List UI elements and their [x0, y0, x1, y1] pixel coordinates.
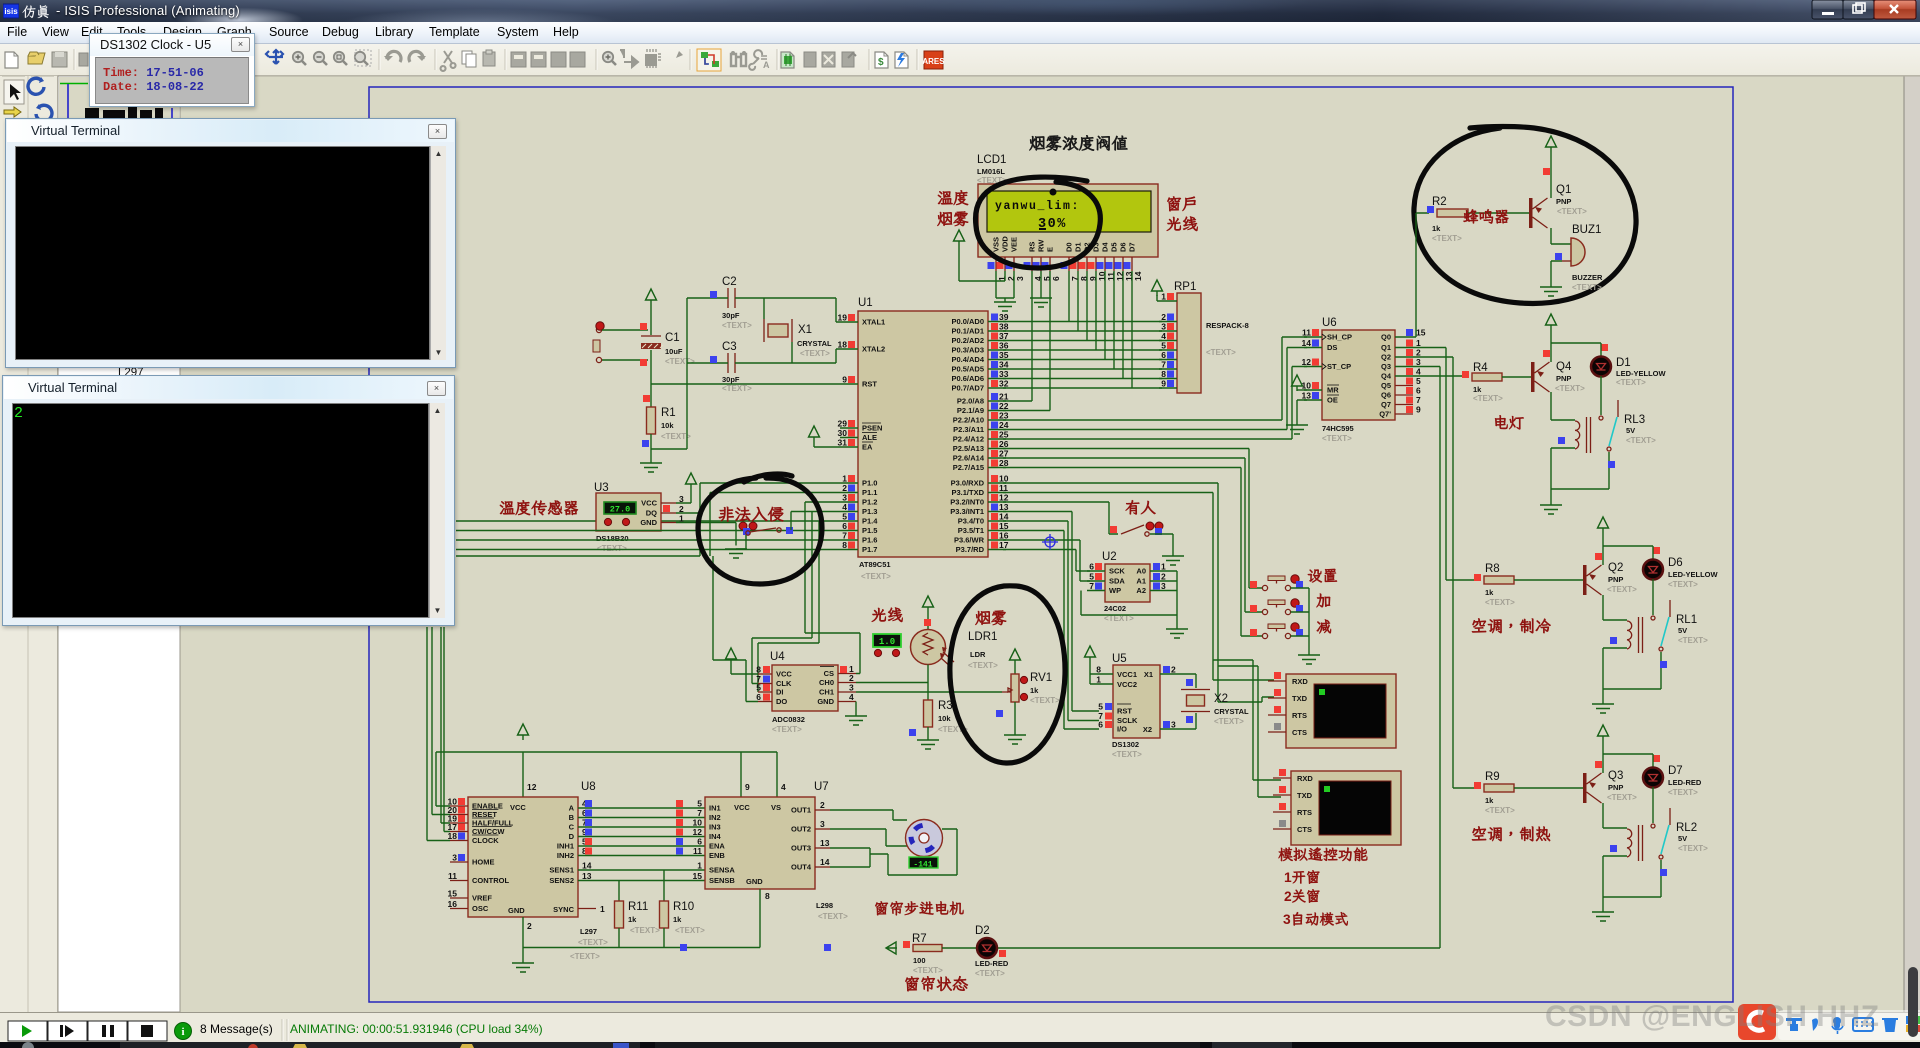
- transistor Q3 PNP: [1583, 773, 1587, 803]
- wire buttons ground rail: [1308, 588, 1310, 655]
- svg-text:<TEXT>: <TEXT>: [722, 321, 752, 330]
- svg-text:XTAL2: XTAL2: [862, 345, 885, 354]
- svg-text:C: C: [569, 823, 575, 832]
- U8 pin 17 CW/CCW: [450, 831, 468, 833]
- U1 pin 31 EA: [840, 446, 858, 448]
- svg-text:ENB: ENB: [709, 851, 725, 860]
- wire C3 left: [687, 362, 728, 364]
- svg-text:P1.3: P1.3: [862, 507, 877, 516]
- svg-text:4: 4: [1161, 331, 1166, 341]
- power arrow Q2: [1598, 517, 1609, 533]
- resistor R7 100: [913, 945, 942, 952]
- svg-text:9: 9: [745, 782, 750, 792]
- svg-text:<TEXT>: <TEXT>: [597, 544, 627, 553]
- svg-text:PNP: PNP: [1556, 374, 1571, 383]
- svg-text:X2: X2: [1214, 693, 1228, 705]
- wire emitter rail to D6: [1603, 545, 1653, 547]
- svg-text:1k: 1k: [1030, 686, 1039, 695]
- svg-text:XTAL1: XTAL1: [862, 318, 885, 327]
- relay RL3 coil: [1575, 421, 1580, 449]
- U4 pin 6 DO: [758, 701, 772, 703]
- svg-text:27.0: 27.0: [610, 505, 630, 515]
- svg-text:2: 2: [820, 800, 825, 810]
- wire P1.3 bracket to U4 CLK: [752, 512, 812, 684]
- svg-text:ALE: ALE: [862, 433, 877, 442]
- svg-text:3: 3: [1161, 322, 1166, 332]
- terminal 2 pin CTS: [1273, 828, 1291, 830]
- LCD1 pin 12 D5: [1113, 257, 1115, 271]
- wire P2.2 to U6 SH_CP: [1003, 337, 1307, 420]
- svg-text:<TEXT>: <TEXT>: [800, 349, 830, 358]
- svg-text:U7: U7: [814, 781, 829, 793]
- ground (buzzer): [1540, 287, 1562, 296]
- U6 pin 11 SH_CP: [1304, 336, 1322, 338]
- svg-text:<TEXT>: <TEXT>: [1557, 207, 1587, 216]
- svg-text:U8: U8: [581, 781, 596, 793]
- push button SET: [1250, 581, 1257, 588]
- wire C2 left: [687, 297, 728, 299]
- svg-text:D6: D6: [1668, 557, 1683, 569]
- svg-text:P2.5/A13: P2.5/A13: [953, 444, 984, 453]
- U8 pin 16 OSC: [450, 908, 468, 910]
- wire P3.3 to U5 RST: [1003, 512, 1099, 712]
- resistor R3 10k: [924, 700, 933, 727]
- U5 pin 5 RST: [1105, 703, 1112, 710]
- svg-text:P3.4/T0: P3.4/T0: [958, 517, 984, 526]
- transistor Q4 PNP: [1531, 362, 1535, 392]
- ground (U6 OE): [1286, 425, 1308, 434]
- wire P3.5 to U5 I/O: [1003, 531, 1099, 730]
- svg-text:D6: D6: [1119, 242, 1128, 252]
- U1 pin 2 P1.1: [840, 492, 858, 494]
- svg-text:<TEXT>: <TEXT>: [1616, 378, 1646, 387]
- svg-text:6: 6: [842, 521, 847, 531]
- power arrow U4 VCC: [726, 648, 737, 664]
- svg-text:15: 15: [693, 871, 703, 881]
- svg-text:DS: DS: [1327, 343, 1337, 352]
- U4 pin 7 CLK: [758, 683, 772, 685]
- svg-text:PSEN: PSEN: [862, 424, 882, 433]
- svg-text:1k: 1k: [1485, 796, 1494, 805]
- ground (relay RL2): [1602, 897, 1604, 912]
- reset button: [596, 327, 601, 332]
- svg-text:DS1302: DS1302: [1112, 740, 1139, 749]
- svg-text:C3: C3: [722, 341, 737, 353]
- svg-text:P0.5/AD5: P0.5/AD5: [951, 365, 984, 374]
- svg-text:2: 2: [1284, 889, 1292, 904]
- svg-text:RST: RST: [1117, 707, 1132, 716]
- power arrow Q1 emitter: [1546, 136, 1557, 152]
- svg-text:29: 29: [838, 419, 848, 429]
- svg-text:14: 14: [820, 857, 830, 867]
- svg-text:<TEXT>: <TEXT>: [578, 938, 608, 947]
- svg-text:30pF: 30pF: [722, 311, 740, 320]
- svg-text:P2.0/A8: P2.0/A8: [957, 397, 984, 406]
- ground (reset): [640, 463, 662, 472]
- U5 pin 3 X2: [1160, 728, 1178, 730]
- U4 pin 5 DI: [758, 691, 772, 693]
- svg-text:VCC2: VCC2: [1117, 680, 1137, 689]
- svg-text:12: 12: [693, 827, 703, 837]
- RP1 pin 6: [1159, 359, 1177, 361]
- svg-text:5: 5: [1098, 702, 1103, 712]
- svg-text:21: 21: [999, 392, 1009, 402]
- wire U8 to U7 row 1: [578, 807, 705, 809]
- svg-text:Q0: Q0: [1381, 333, 1391, 342]
- svg-text:OE: OE: [1327, 396, 1338, 405]
- svg-text:3: 3: [1283, 912, 1291, 927]
- svg-text:EA: EA: [862, 443, 873, 452]
- ground (LCD RW): [1030, 298, 1052, 307]
- power arrow U6 MR: [1297, 389, 1307, 391]
- LED D6: [1652, 546, 1654, 560]
- svg-text:D7: D7: [1668, 765, 1683, 777]
- svg-text:R4: R4: [1473, 362, 1488, 374]
- U1 pin 7 P1.6: [840, 539, 858, 541]
- svg-text:2: 2: [527, 921, 532, 931]
- svg-text:ADC0832: ADC0832: [772, 715, 805, 724]
- svg-text:P3.7/RD: P3.7/RD: [956, 545, 985, 554]
- U1 pin 1 P1.0: [840, 482, 858, 484]
- U8 pin 3 HOME: [450, 861, 468, 863]
- U5 pin 7 SCLK: [1105, 713, 1112, 720]
- U1 pin 18 XTAL2: [840, 348, 858, 350]
- ground (presence switch): [1162, 556, 1184, 565]
- svg-text:<TEXT>: <TEXT>: [1668, 788, 1698, 797]
- svg-text:13: 13: [999, 502, 1009, 512]
- svg-text:2: 2: [1161, 312, 1166, 322]
- wire RV1 to ground: [1014, 702, 1016, 735]
- svg-text:Q1: Q1: [1381, 343, 1391, 352]
- object selector panel: [58, 76, 180, 1012]
- svg-text:LDR1: LDR1: [968, 631, 997, 643]
- virtual terminal instrument 2: [1291, 771, 1401, 845]
- svg-text:R8: R8: [1485, 563, 1500, 575]
- svg-text:<TEXT>: <TEXT>: [1432, 234, 1462, 243]
- svg-text:<TEXT>: <TEXT>: [1030, 696, 1060, 705]
- svg-text:P0.4/AD4: P0.4/AD4: [951, 355, 984, 364]
- svg-text:<TEXT>: <TEXT>: [1607, 793, 1637, 802]
- svg-text:P0.3/AD3: P0.3/AD3: [951, 346, 984, 355]
- svg-text:X2: X2: [1143, 725, 1152, 734]
- wire U3 DQ: [456, 513, 700, 556]
- svg-text:9: 9: [1416, 405, 1421, 415]
- svg-text:4: 4: [781, 782, 786, 792]
- svg-text:<TEXT>: <TEXT>: [1112, 750, 1142, 759]
- U1 pin 6 P1.5: [840, 530, 858, 532]
- wire button PLUS to ground rail: [1291, 611, 1310, 613]
- svg-text:1k: 1k: [1485, 588, 1494, 597]
- svg-text:<TEXT>: <TEXT>: [1485, 806, 1515, 815]
- svg-text:10uF: 10uF: [665, 347, 683, 356]
- wire Q4 collector to relay: [1551, 392, 1575, 420]
- ground (U3): [725, 549, 747, 558]
- svg-text:22: 22: [999, 401, 1009, 411]
- wire P0.5 to RP1 pin 7: [1003, 368, 1162, 370]
- svg-text:RL1: RL1: [1676, 614, 1697, 626]
- wire Q4 emitter rail to D1: [1551, 342, 1601, 344]
- svg-text:1: 1: [1416, 338, 1421, 348]
- svg-text:I/O: I/O: [1117, 725, 1127, 734]
- wire RW to ground: [1040, 271, 1042, 298]
- svg-text:39: 39: [999, 312, 1009, 322]
- LCD1 pin 5 RW: [1040, 257, 1042, 271]
- wire U8 to U7 row 2: [578, 817, 705, 819]
- svg-text:<TEXT>: <TEXT>: [1555, 384, 1585, 393]
- svg-text:5V: 5V: [1678, 834, 1687, 843]
- svg-text:CLOCK: CLOCK: [472, 836, 499, 845]
- terminal 2 pin TXD: [1273, 794, 1291, 796]
- svg-text:12: 12: [1302, 357, 1312, 367]
- svg-text:<TEXT>: <TEXT>: [975, 969, 1005, 978]
- svg-text:30: 30: [838, 428, 848, 438]
- svg-text:OUT3: OUT3: [791, 844, 811, 853]
- wire LCD D2 / P0.2 bus: [1086, 271, 1088, 341]
- svg-text:6: 6: [1051, 276, 1061, 281]
- U1 pin 35 P0.4/AD4: [988, 359, 1006, 361]
- ground (R3): [917, 740, 939, 749]
- LCD1 pin 6 E: [1049, 257, 1051, 271]
- LCD1 pin 4 RS: [1031, 257, 1033, 271]
- svg-text:SENS2: SENS2: [549, 876, 574, 885]
- svg-text:8: 8: [1161, 369, 1166, 379]
- crystal X2: [1178, 674, 1196, 688]
- svg-text:U3: U3: [594, 482, 609, 494]
- svg-text:CONTROL: CONTROL: [472, 876, 509, 885]
- relay RL3 switch: [1617, 400, 1619, 417]
- svg-text:5: 5: [842, 512, 847, 522]
- svg-text:OUT4: OUT4: [791, 863, 812, 872]
- svg-text:<TEXT>: <TEXT>: [1206, 348, 1236, 357]
- svg-text:1: 1: [697, 861, 702, 871]
- power arrow Q4 emitter: [1546, 314, 1557, 330]
- wire Q2 to R9: [1413, 357, 1477, 788]
- svg-text:D1: D1: [1616, 357, 1631, 369]
- wire R2 to Q1 base: [1468, 212, 1529, 214]
- svg-text:3: 3: [1416, 357, 1421, 367]
- svg-text:CRYSTAL: CRYSTAL: [1214, 707, 1249, 716]
- svg-text:yanwu_lim:: yanwu_lim:: [995, 200, 1080, 213]
- U2 pin 3 A2: [1150, 590, 1168, 592]
- svg-text:U5: U5: [1112, 653, 1127, 665]
- svg-text:<TEXT>: <TEXT>: [861, 572, 891, 581]
- svg-text:1k: 1k: [1432, 224, 1441, 233]
- ground (U4): [845, 716, 867, 725]
- resistor R2 1k: [1437, 209, 1468, 217]
- wire P0.4 to RP1 pin 6: [1003, 359, 1162, 361]
- svg-text:1k: 1k: [628, 915, 637, 924]
- svg-text:INH2: INH2: [557, 851, 574, 860]
- svg-text:11: 11: [999, 483, 1008, 493]
- U1 pin 30 ALE: [840, 437, 858, 439]
- svg-text:BUZZER: BUZZER: [1572, 273, 1603, 282]
- svg-text:P1.0: P1.0: [862, 479, 877, 488]
- U5 pin 2 X1: [1160, 673, 1178, 675]
- svg-text:14: 14: [1133, 271, 1143, 281]
- svg-text:RTS: RTS: [1292, 711, 1307, 720]
- svg-text:<TEXT>: <TEXT>: [913, 966, 943, 975]
- svg-text:A0: A0: [1136, 567, 1146, 576]
- svg-text:28: 28: [999, 458, 1009, 468]
- svg-text:4: 4: [842, 502, 847, 512]
- svg-text:27: 27: [999, 449, 1009, 459]
- wire relay coil bottom: [1551, 447, 1575, 449]
- wire R3 to ground: [927, 727, 929, 740]
- U1 pin 10 P3.0/RXD: [988, 482, 1006, 484]
- wire P0.6 to RP1 pin 8: [1003, 378, 1162, 380]
- ground (RV1): [1004, 735, 1026, 744]
- wire U4 CH0 to LDR/R3: [856, 682, 928, 684]
- svg-text:7: 7: [1089, 581, 1094, 591]
- svg-text:P1.2: P1.2: [862, 498, 877, 507]
- svg-text:7: 7: [697, 808, 702, 818]
- wire VSS/VEE to ground: [996, 271, 1014, 302]
- svg-text:C2: C2: [722, 276, 737, 288]
- svg-text:1.0: 1.0: [879, 637, 895, 647]
- svg-text:SCK: SCK: [1109, 567, 1125, 576]
- stepper motor: [906, 820, 943, 857]
- svg-text:2: 2: [1416, 348, 1421, 358]
- svg-text:SENSB: SENSB: [709, 876, 735, 885]
- U8 pin 11 CONTROL: [450, 880, 468, 882]
- U7 GND wire: [759, 889, 761, 948]
- U1 pin 17 P3.7/RD: [988, 549, 1006, 551]
- svg-text:7: 7: [1416, 395, 1421, 405]
- overview minimap: [60, 83, 88, 85]
- svg-text:U1: U1: [858, 297, 873, 309]
- svg-text:36: 36: [999, 341, 1009, 351]
- input arrow terminal: [886, 942, 897, 954]
- U1 pin 5 P1.4: [840, 520, 858, 522]
- U1 pin 26 P2.5/A13: [988, 448, 1006, 450]
- svg-text:U4: U4: [770, 651, 785, 663]
- svg-text:14: 14: [1302, 338, 1312, 348]
- wire C2/C3 ground rail: [651, 298, 687, 449]
- U1 pin 12 P3.2/INT0: [988, 501, 1006, 503]
- svg-text:P0.6/AD6: P0.6/AD6: [951, 374, 984, 383]
- svg-text:38: 38: [999, 322, 1009, 332]
- svg-text:LED-RED: LED-RED: [975, 959, 1009, 968]
- svg-text:32: 32: [999, 379, 1009, 389]
- svg-text:SH_CP: SH_CP: [1327, 333, 1352, 342]
- transistor Q2 PNP: [1583, 565, 1587, 595]
- wire P2.5 to button SET: [1003, 449, 1262, 589]
- svg-text:<TEXT>: <TEXT>: [1678, 636, 1708, 645]
- hand-drawn circle (smoke RV1): [950, 586, 1065, 763]
- U1 pin 23 P2.2/A10: [988, 419, 1006, 421]
- svg-text:X1: X1: [798, 324, 812, 336]
- svg-text:Q4: Q4: [1381, 372, 1392, 381]
- svg-text:R7: R7: [912, 933, 927, 945]
- U2 pin 7 WP: [1087, 590, 1105, 592]
- svg-text:<TEXT>: <TEXT>: [1214, 717, 1244, 726]
- svg-text:11: 11: [448, 871, 457, 881]
- RP1 pin 4: [1159, 340, 1177, 342]
- U6 pin 1 Q1: [1395, 347, 1413, 349]
- wire switch to ground: [1150, 534, 1173, 556]
- svg-text:E: E: [1046, 247, 1055, 252]
- wire LCD RS to P2.0: [1003, 271, 1032, 401]
- svg-text:5V: 5V: [1626, 426, 1635, 435]
- capacitor C3 30pF: [728, 353, 735, 373]
- svg-text:<TEXT>: <TEXT>: [1572, 283, 1602, 292]
- wire U4 GND to ground: [855, 702, 857, 716]
- svg-text:7: 7: [1161, 360, 1166, 370]
- svg-text:P3.0/RXD: P3.0/RXD: [951, 479, 985, 488]
- wire OUT3 to motor loop: [830, 829, 957, 875]
- svg-text:13: 13: [582, 871, 592, 881]
- U1 pin 9 RST: [840, 383, 858, 385]
- wire P3.2 to presence switch: [1003, 502, 1118, 534]
- U3 pin 2 DQ: [661, 512, 676, 514]
- svg-text:37: 37: [999, 331, 1009, 341]
- wire RST net: [651, 383, 840, 385]
- svg-text:P3.5/T1: P3.5/T1: [958, 526, 984, 535]
- U6 pin 2 Q2: [1395, 356, 1413, 358]
- wire P2.7 to button MINUS: [1003, 468, 1262, 637]
- svg-text:2: 2: [1171, 665, 1176, 675]
- terminal 2 pin RTS: [1273, 811, 1291, 813]
- U1 pin 4 P1.3: [840, 511, 858, 513]
- svg-text:15: 15: [448, 889, 458, 899]
- terminal 2 pin RXD: [1273, 777, 1291, 779]
- svg-text:5: 5: [1089, 572, 1094, 582]
- power arrow U3 VCC: [676, 489, 691, 503]
- U1 pin 39 P0.0/AD0: [988, 321, 1006, 323]
- svg-text:23: 23: [999, 411, 1009, 421]
- U2 pin 6 SCK: [1087, 570, 1105, 572]
- wire emitter rail to D7: [1603, 753, 1653, 755]
- svg-text:R3: R3: [938, 700, 953, 712]
- svg-text:1k: 1k: [673, 915, 682, 924]
- ground (relay RL3): [1540, 505, 1562, 514]
- wire P1.1 down: [710, 493, 840, 557]
- wire buzzer to ground: [1551, 261, 1562, 287]
- svg-text:6: 6: [1416, 386, 1421, 396]
- svg-text:2: 2: [1161, 572, 1166, 582]
- svg-text:LED-YELLOW: LED-YELLOW: [1668, 570, 1718, 579]
- wire LCD E to P2.1: [1003, 271, 1050, 411]
- U1 pin 16 P3.6/WR: [988, 539, 1006, 541]
- svg-text:12: 12: [527, 782, 537, 792]
- VCC rail (stepper): [436, 752, 777, 806]
- svg-text:1: 1: [1161, 562, 1166, 572]
- wire U4 DO down: [713, 556, 758, 702]
- svg-text:P0.0/AD0: P0.0/AD0: [951, 317, 984, 326]
- svg-text:OUT2: OUT2: [791, 825, 811, 834]
- svg-text:2: 2: [849, 673, 854, 683]
- svg-text:6: 6: [1098, 720, 1103, 730]
- svg-text:CS: CS: [824, 669, 834, 678]
- svg-text:D1: D1: [1074, 242, 1083, 252]
- svg-text:Q1: Q1: [1556, 184, 1571, 196]
- svg-text:RXD: RXD: [1292, 677, 1308, 686]
- terminal 1 pin RXD: [1268, 680, 1286, 682]
- svg-text:R1: R1: [661, 407, 676, 419]
- svg-text:6: 6: [1089, 562, 1094, 572]
- wire LCD D7 / P0.7 bus: [1131, 271, 1133, 388]
- svg-text:7: 7: [842, 531, 847, 541]
- svg-text:GND: GND: [746, 877, 763, 886]
- svg-text:RL3: RL3: [1624, 414, 1645, 426]
- wire OUT2 to motor: [830, 829, 907, 846]
- relay RL1 switch: [1669, 600, 1671, 617]
- capacitor C2 30pF: [728, 288, 735, 308]
- svg-text:U6: U6: [1322, 317, 1337, 329]
- svg-text:CH0: CH0: [819, 678, 834, 687]
- wire P2.3 to U6 DS: [1003, 348, 1307, 430]
- svg-text:SENS1: SENS1: [549, 866, 574, 875]
